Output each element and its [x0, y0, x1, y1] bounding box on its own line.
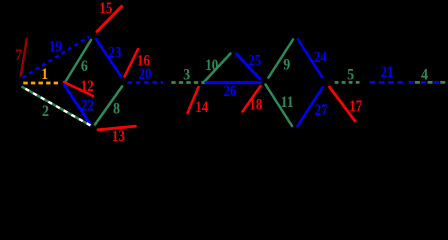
edge 18 (red pendant) [243, 86, 263, 114]
edge 12 (red pendant) [64, 78, 94, 96]
edge 8 (teal) [95, 87, 122, 125]
edge 6 (teal) [66, 40, 92, 82]
edge 24 (blue) [298, 40, 327, 78]
svg-text:2: 2 [42, 103, 49, 120]
svg-text:4: 4 [421, 67, 428, 84]
svg-text:23: 23 [108, 44, 121, 61]
svg-text:9: 9 [283, 56, 290, 73]
svg-text:1: 1 [41, 66, 48, 83]
edge 21 (blue dashed) [370, 64, 403, 82]
edge 22 (blue) [65, 86, 94, 125]
edge 14 (red pendant) [188, 87, 209, 116]
svg-text:5: 5 [347, 67, 354, 84]
edge 2 (green/white dashed) [22, 87, 91, 126]
svg-text:17: 17 [349, 98, 362, 115]
svg-text:10: 10 [205, 57, 218, 74]
edge 17 (red pendant) [330, 87, 363, 121]
edge 3 (green dashed) [171, 66, 205, 83]
edge 20 (blue dashed) [128, 66, 164, 83]
svg-text:18: 18 [249, 97, 262, 114]
edge 13 (red pendant) [98, 126, 136, 145]
edge 25 (blue) [237, 53, 262, 79]
edge 27 (blue) [298, 88, 328, 127]
edge 9 (teal) [269, 40, 294, 78]
edge 26 (blue) [206, 83, 260, 101]
edge 11 (teal) [266, 85, 294, 127]
svg-text:8: 8 [113, 101, 120, 118]
svg-text:15: 15 [99, 0, 112, 17]
svg-text:6: 6 [81, 58, 88, 75]
svg-text:27: 27 [315, 102, 328, 119]
edge 15 (red pendant) [97, 0, 122, 31]
svg-text:26: 26 [224, 83, 237, 100]
svg-text:25: 25 [248, 53, 261, 70]
edge 16 (red pendant) [125, 49, 151, 77]
svg-text:24: 24 [314, 49, 327, 66]
svg-text:12: 12 [81, 78, 94, 95]
edge 19 (blue dashed) [23, 37, 90, 78]
edge 10 (teal) [203, 54, 231, 84]
svg-text:3: 3 [183, 66, 190, 83]
svg-text:11: 11 [281, 94, 294, 111]
svg-text:20: 20 [139, 66, 152, 83]
svg-text:14: 14 [195, 99, 208, 116]
svg-text:22: 22 [81, 98, 94, 115]
edge 7 (dark red pendant) [15, 39, 27, 76]
edge 4 (blue/green dashed) [409, 67, 447, 84]
edge 1 (orange dashed) [23, 66, 58, 83]
edge 5 (green dashed) [335, 67, 361, 84]
edge 23 (blue) [96, 39, 121, 77]
svg-text:13: 13 [112, 128, 125, 145]
svg-text:21: 21 [381, 64, 394, 81]
svg-text:19: 19 [49, 39, 62, 56]
svg-text:7: 7 [15, 47, 22, 64]
